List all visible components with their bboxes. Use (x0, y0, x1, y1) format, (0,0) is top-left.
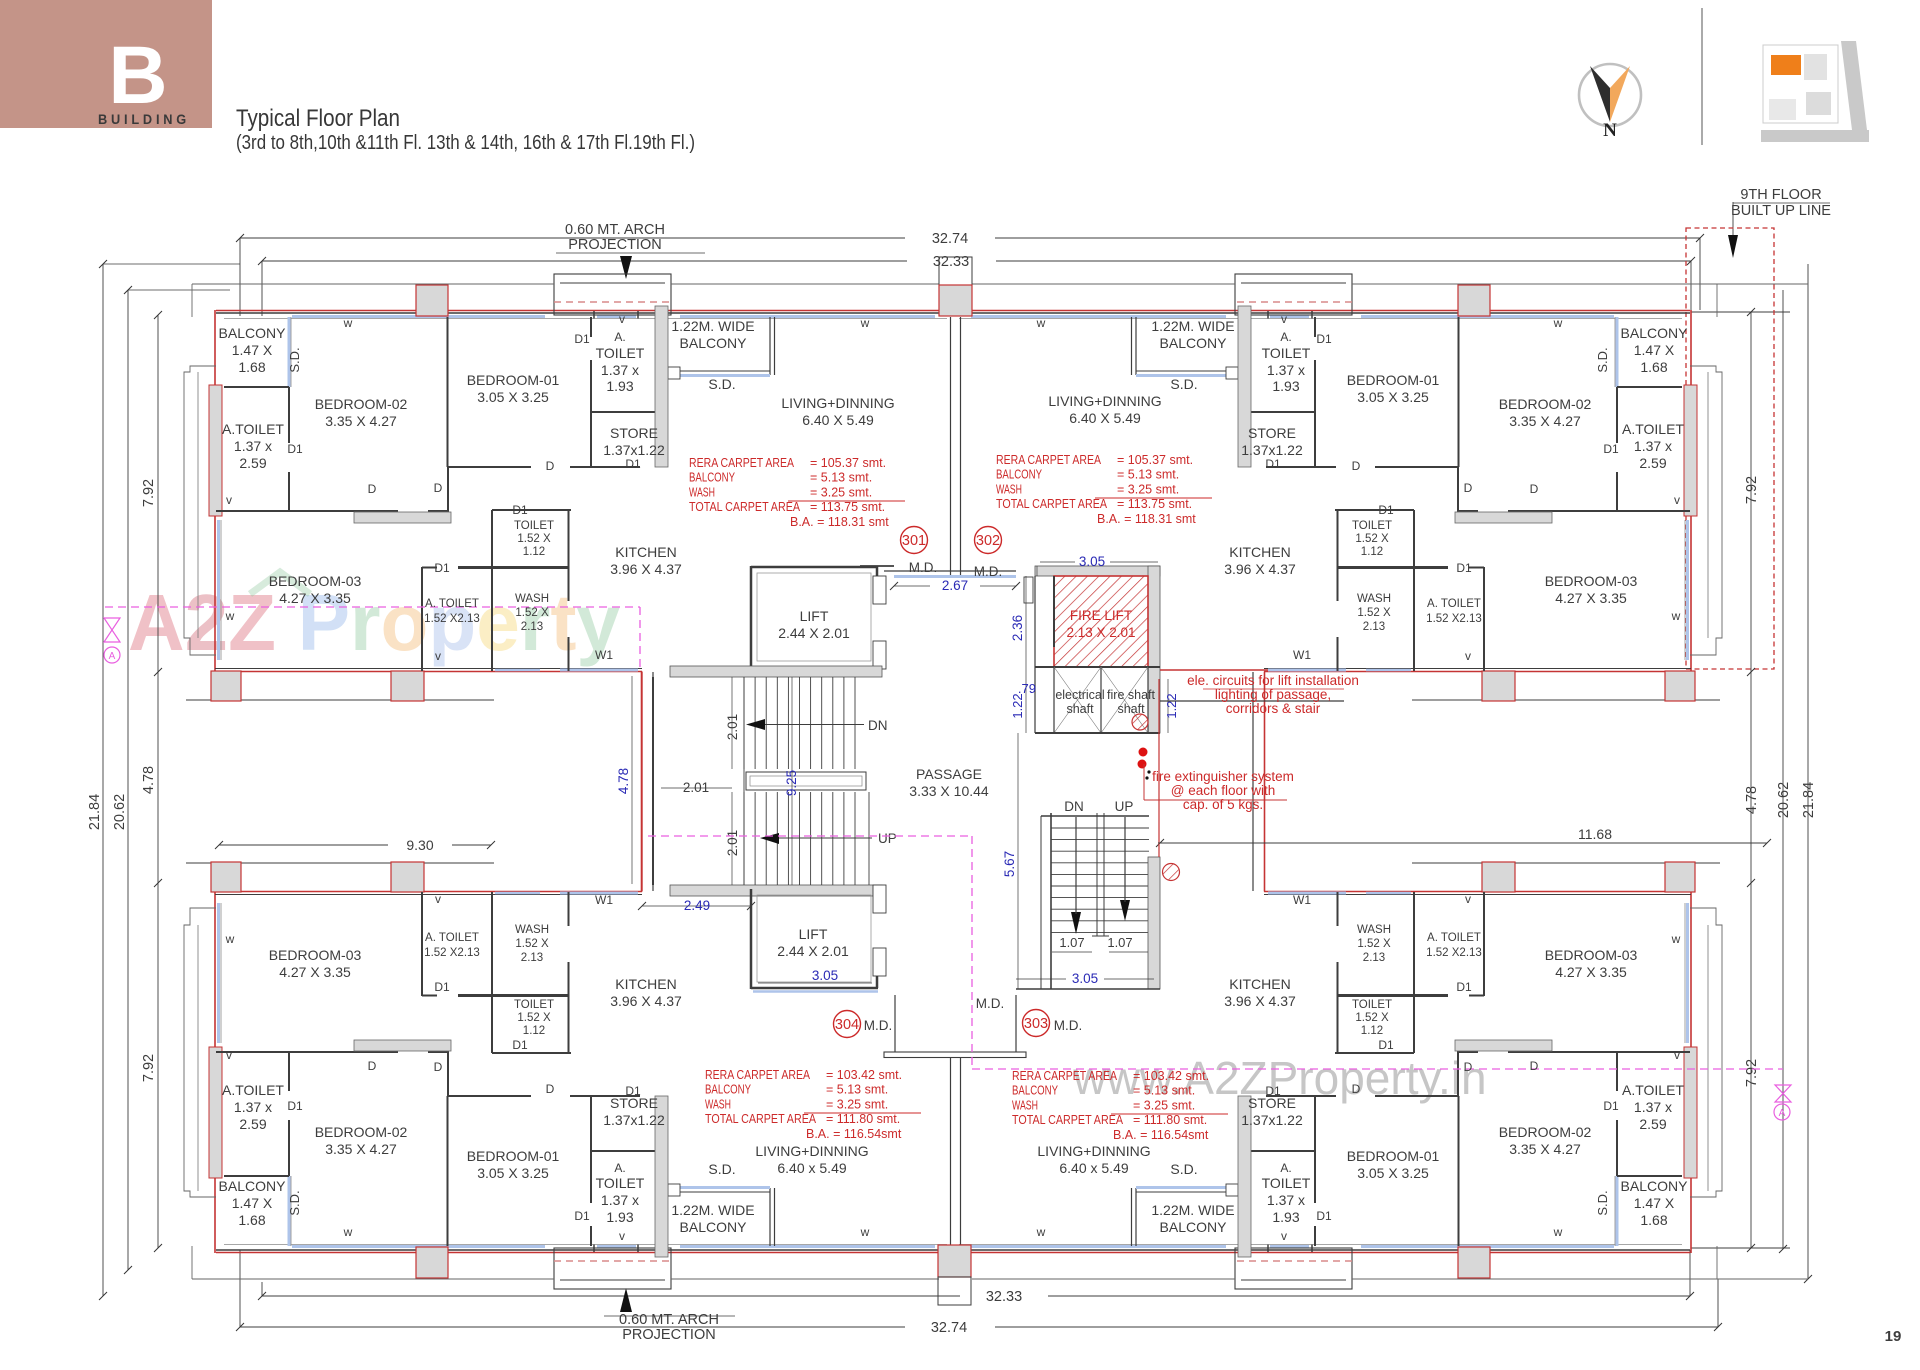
svg-text:A.TOILET: A.TOILET (1622, 421, 1684, 437)
svg-text:3.35 X 4.27: 3.35 X 4.27 (325, 1141, 397, 1157)
svg-text:= 5.13 smt.: = 5.13 smt. (826, 1083, 888, 1097)
svg-text:= 5.13 smt.: = 5.13 smt. (1117, 468, 1179, 482)
svg-text:1.68: 1.68 (1640, 359, 1667, 375)
svg-text:TOILET: TOILET (1352, 520, 1392, 532)
svg-text:BUILDING: BUILDING (98, 112, 190, 127)
svg-text:3.05: 3.05 (1072, 971, 1098, 986)
svg-text:BEDROOM-02: BEDROOM-02 (315, 396, 408, 412)
svg-text:D: D (1464, 481, 1473, 495)
svg-text:3.96 X 4.37: 3.96 X 4.37 (610, 561, 682, 577)
stair dimensions (731, 677, 733, 769)
central foyer partition (950, 317, 952, 576)
svg-text:A.: A. (1280, 330, 1291, 344)
svg-text:A. TOILET: A. TOILET (425, 932, 479, 944)
bottom centre projection (938, 1277, 971, 1305)
svg-text:303: 303 (1024, 1016, 1048, 1032)
svg-text:D1: D1 (287, 1099, 303, 1113)
header divider (1701, 8, 1703, 145)
svg-text:@ each floor with: @ each floor with (1171, 783, 1276, 798)
svg-text:PROJECTION: PROJECTION (568, 237, 661, 253)
svg-text:1.52 X: 1.52 X (515, 607, 549, 619)
svg-text:BEDROOM-01: BEDROOM-01 (467, 1148, 560, 1164)
svg-text:= 111.80 smt.: = 111.80 smt. (826, 1112, 900, 1126)
fire lift (1035, 566, 1160, 576)
svg-text:KITCHEN: KITCHEN (1229, 976, 1290, 992)
svg-text:9.25: 9.25 (784, 770, 799, 796)
svg-text:fire extinguisher system: fire extinguisher system (1152, 769, 1294, 784)
svg-text:1.52 X2.13: 1.52 X2.13 (424, 947, 480, 959)
svg-text:v: v (226, 493, 232, 507)
svg-text:D: D (1530, 1059, 1539, 1073)
svg-text:D1: D1 (1456, 561, 1472, 575)
stair landing (746, 772, 866, 790)
svg-text:UP: UP (1115, 799, 1134, 814)
svg-text:1.12: 1.12 (523, 1025, 545, 1037)
svg-text:= 5.13 smt.: = 5.13 smt. (810, 471, 872, 485)
svg-text:v: v (1674, 1048, 1680, 1062)
svg-text:1.52 X2.13: 1.52 X2.13 (1426, 947, 1482, 959)
svg-text:= 3.25 smt.: = 3.25 smt. (810, 485, 872, 499)
svg-text:w: w (343, 316, 353, 330)
svg-text:W1: W1 (595, 893, 613, 907)
svg-text:20.62: 20.62 (1776, 782, 1792, 818)
svg-text:3.35 X 4.27: 3.35 X 4.27 (1509, 1141, 1581, 1157)
svg-text:1.47 X: 1.47 X (1634, 1195, 1675, 1211)
svg-text:2.44 X 2.01: 2.44 X 2.01 (777, 943, 849, 959)
svg-text:w: w (1036, 316, 1046, 330)
svg-text:WASH: WASH (705, 1097, 731, 1111)
right core lobby walls (1160, 669, 1268, 671)
svg-text:N: N (1603, 120, 1617, 141)
dimension ticks (236, 234, 244, 242)
svg-text:corridors & stair: corridors & stair (1226, 701, 1321, 716)
svg-text:1.93: 1.93 (1272, 1209, 1299, 1225)
svg-text:TOTAL CARPET AREA: TOTAL CARPET AREA (689, 500, 801, 514)
svg-text:1.68: 1.68 (238, 359, 265, 375)
svg-text:3.35 X 4.27: 3.35 X 4.27 (1509, 413, 1581, 429)
2.67 dim (894, 585, 930, 587)
magenta demarcation lines (105, 606, 640, 608)
svg-text:= 103.42 smt.: = 103.42 smt. (1133, 1069, 1209, 1083)
svg-text:1.37 x: 1.37 x (601, 362, 639, 378)
svg-text:2.59: 2.59 (1639, 1116, 1666, 1132)
svg-text:DN: DN (868, 718, 888, 733)
svg-text:S.D.: S.D. (708, 376, 735, 392)
svg-text:B: B (108, 30, 167, 121)
svg-text:5.67: 5.67 (1002, 851, 1017, 877)
svg-text:w: w (1671, 609, 1681, 623)
svg-text:BEDROOM-02: BEDROOM-02 (1499, 396, 1592, 412)
outer dimension lines top (240, 237, 905, 239)
svg-text:S.D.: S.D. (1595, 1190, 1610, 1215)
svg-text:D1: D1 (574, 1209, 590, 1223)
svg-text:= 3.25 smt.: = 3.25 smt. (1117, 482, 1179, 496)
svg-text:M.D.: M.D. (1054, 1018, 1083, 1033)
top centre projection (939, 257, 972, 285)
svg-text:D1: D1 (1316, 1209, 1332, 1223)
svg-text:Typical Floor Plan: Typical Floor Plan (236, 105, 400, 132)
svg-text:B.A. = 118.31 smt: B.A. = 118.31 smt (1097, 512, 1196, 526)
svg-text:W1: W1 (1293, 893, 1311, 907)
svg-text:1.22M. WIDE: 1.22M. WIDE (1151, 318, 1234, 334)
svg-text:4.27 X 3.35: 4.27 X 3.35 (1555, 964, 1627, 980)
svg-text:4.78: 4.78 (616, 768, 631, 794)
svg-text:302: 302 (976, 533, 1000, 549)
svg-text:D: D (368, 1059, 377, 1073)
svg-text:BALCONY: BALCONY (705, 1083, 752, 1097)
svg-text:BALCONY: BALCONY (1160, 335, 1228, 351)
north compass (1579, 64, 1641, 126)
svg-text:7.92: 7.92 (1744, 1059, 1760, 1087)
svg-text:RERA CARPET AREA: RERA CARPET AREA (996, 453, 1102, 467)
wall band (670, 885, 882, 896)
svg-text:shaft: shaft (1066, 702, 1094, 716)
svg-text:S.D.: S.D. (1595, 347, 1610, 372)
svg-text:WASH: WASH (1357, 593, 1391, 605)
svg-text:S.D.: S.D. (287, 347, 302, 372)
svg-text:TOILET: TOILET (514, 520, 554, 532)
svg-text:4.78: 4.78 (1744, 786, 1760, 814)
svg-text:BALCONY: BALCONY (1621, 1178, 1689, 1194)
svg-text:3.33 X 10.44: 3.33 X 10.44 (909, 783, 989, 799)
svg-text:D1: D1 (1603, 1099, 1619, 1113)
svg-text:A2Z Property: A2Z Property (128, 578, 620, 667)
shafts (1054, 667, 1148, 733)
svg-text:electrical: electrical (1055, 688, 1104, 702)
svg-text:= 3.25 smt.: = 3.25 smt. (1133, 1098, 1195, 1112)
svg-text:RERA CARPET AREA: RERA CARPET AREA (689, 456, 795, 470)
left dimension lines (102, 264, 104, 1296)
svg-text:BEDROOM-02: BEDROOM-02 (315, 1124, 408, 1140)
svg-text:4.27 X 3.35: 4.27 X 3.35 (279, 590, 351, 606)
svg-text:w: w (1671, 932, 1681, 946)
svg-text:TOILET: TOILET (1352, 999, 1392, 1011)
svg-text:D1: D1 (1456, 980, 1472, 994)
svg-text:cap. of 5 kgs.: cap. of 5 kgs. (1183, 797, 1263, 812)
svg-text:D: D (1464, 1060, 1473, 1074)
svg-text:2.13: 2.13 (1363, 952, 1385, 964)
svg-text:= 3.25 smt.: = 3.25 smt. (826, 1097, 888, 1111)
wall band (670, 666, 882, 677)
svg-text:2.67: 2.67 (942, 578, 968, 593)
svg-text:ele. circuits for lift install: ele. circuits for lift installation (1187, 673, 1359, 688)
svg-text:4.27 X 3.35: 4.27 X 3.35 (279, 964, 351, 980)
svg-text:D1: D1 (1265, 1084, 1281, 1098)
svg-text:1.52 X: 1.52 X (1355, 533, 1389, 545)
svg-text:BALCONY: BALCONY (219, 325, 287, 341)
svg-text:BALCONY: BALCONY (689, 471, 736, 485)
svg-text:D1: D1 (625, 1084, 641, 1098)
svg-text:w: w (225, 932, 235, 946)
projection outline (192, 283, 554, 285)
svg-text:S.D.: S.D. (287, 1190, 302, 1215)
svg-text:M.D.: M.D. (974, 564, 1003, 579)
svg-text:3.05 X 3.25: 3.05 X 3.25 (477, 1165, 549, 1181)
svg-text:3.96 X 4.37: 3.96 X 4.37 (1224, 993, 1296, 1009)
lift shaft bottom (750, 889, 753, 989)
svg-text:STORE: STORE (1248, 425, 1296, 441)
flat number 304 (834, 1011, 861, 1038)
svg-text:1.37 x: 1.37 x (1634, 1099, 1672, 1115)
svg-text:20.62: 20.62 (112, 794, 128, 830)
svg-text:BEDROOM-02: BEDROOM-02 (1499, 1124, 1592, 1140)
svg-text:D1: D1 (1378, 503, 1394, 517)
svg-text:1.68: 1.68 (238, 1212, 265, 1228)
svg-text:TOILET: TOILET (596, 345, 645, 361)
svg-text:21.84: 21.84 (87, 794, 103, 830)
svg-text:7.92: 7.92 (141, 1054, 157, 1082)
svg-text:v: v (226, 1048, 232, 1062)
svg-text:UP: UP (878, 831, 897, 846)
svg-text:D1: D1 (574, 332, 590, 346)
svg-text:2.59: 2.59 (239, 455, 266, 471)
svg-text:KITCHEN: KITCHEN (615, 544, 676, 560)
passage entry walls (884, 570, 1016, 572)
svg-text:M.D.: M.D. (909, 560, 938, 575)
svg-text:RERA CARPET AREA: RERA CARPET AREA (1012, 1069, 1118, 1083)
svg-text:1.93: 1.93 (1272, 378, 1299, 394)
svg-text:BALCONY: BALCONY (680, 1219, 748, 1235)
svg-text:BEDROOM-01: BEDROOM-01 (467, 372, 560, 388)
svg-text:D1: D1 (287, 442, 303, 456)
svg-text:BEDROOM-03: BEDROOM-03 (269, 947, 362, 963)
svg-text:D: D (1352, 459, 1361, 473)
outer dimension lines bottom (262, 1295, 960, 1297)
svg-text:= 105.37 smt.: = 105.37 smt. (810, 456, 886, 470)
right stair dims (1052, 951, 1092, 953)
flat number 302 (975, 527, 1002, 554)
svg-text:3.05: 3.05 (812, 968, 838, 983)
svg-text:= 5.13 smt.: = 5.13 smt. (1133, 1084, 1195, 1098)
lift shaft top (750, 566, 753, 667)
svg-text:TOTAL CARPET AREA: TOTAL CARPET AREA (1012, 1113, 1124, 1127)
svg-text:1.37x1.22: 1.37x1.22 (1241, 442, 1303, 458)
svg-text:BALCONY: BALCONY (680, 335, 748, 351)
svg-text:1.12: 1.12 (1361, 546, 1383, 558)
svg-text:S.D.: S.D. (708, 1161, 735, 1177)
svg-text:1.37 x: 1.37 x (234, 438, 272, 454)
svg-text:LIVING+DINNING: LIVING+DINNING (755, 1143, 868, 1159)
right dimension lines (1750, 312, 1752, 1248)
svg-text:D1: D1 (1603, 442, 1619, 456)
staircase right (1040, 816, 1042, 989)
svg-text:1.52 X: 1.52 X (1357, 938, 1391, 950)
svg-text:B.A. = 118.31 smt: B.A. = 118.31 smt (790, 515, 889, 529)
svg-text:D: D (1530, 482, 1539, 496)
svg-text:= 113.75 smt.: = 113.75 smt. (1117, 497, 1192, 511)
svg-text:w: w (1553, 316, 1563, 330)
svg-text:W1: W1 (1293, 648, 1311, 662)
svg-text:A. TOILET: A. TOILET (1427, 598, 1481, 610)
svg-text:BALCONY: BALCONY (219, 1178, 287, 1194)
svg-text:v: v (1674, 493, 1680, 507)
svg-text:1.47 X: 1.47 X (1634, 342, 1675, 358)
svg-text:B.A. = 116.54smt: B.A. = 116.54smt (806, 1127, 902, 1141)
svg-text:2.36: 2.36 (1010, 615, 1025, 641)
svg-text:1.22M. WIDE: 1.22M. WIDE (1151, 1202, 1234, 1218)
survey marker right (1775, 1085, 1791, 1102)
svg-text:BALCONY: BALCONY (1012, 1084, 1059, 1098)
svg-text:S.D.: S.D. (1170, 1161, 1197, 1177)
svg-text:A.: A. (1280, 1161, 1291, 1175)
svg-text:7.92: 7.92 (1744, 476, 1760, 504)
bottom centre column (938, 1245, 971, 1277)
svg-text:1.93: 1.93 (606, 378, 633, 394)
svg-text:D1: D1 (434, 980, 450, 994)
svg-text:BALCONY: BALCONY (1621, 325, 1689, 341)
svg-text:D: D (434, 481, 443, 495)
svg-text:v: v (1465, 649, 1471, 663)
svg-text:BEDROOM-01: BEDROOM-01 (1347, 372, 1440, 388)
svg-text:A: A (109, 651, 116, 662)
svg-text:DN: DN (1064, 799, 1084, 814)
svg-text:D1: D1 (512, 503, 528, 517)
svg-text:w: w (1036, 1225, 1046, 1239)
svg-text:1.52 X: 1.52 X (517, 533, 551, 545)
svg-text:1.37 x: 1.37 x (601, 1192, 639, 1208)
svg-text:4.78: 4.78 (141, 766, 157, 794)
svg-text:1.37x1.22: 1.37x1.22 (603, 442, 665, 458)
svg-text:3.96 X 4.37: 3.96 X 4.37 (610, 993, 682, 1009)
svg-text:A.TOILET: A.TOILET (222, 1082, 284, 1098)
site key plan icon (1763, 45, 1838, 123)
svg-text:A.TOILET: A.TOILET (1622, 1082, 1684, 1098)
svg-text:D: D (434, 1060, 443, 1074)
svg-text:1.37x1.22: 1.37x1.22 (1241, 1112, 1303, 1128)
svg-text:v: v (435, 892, 441, 906)
svg-text:2.01: 2.01 (725, 714, 740, 740)
svg-text:v: v (1281, 312, 1287, 326)
svg-text:M.D.: M.D. (976, 996, 1005, 1011)
svg-text:1.12: 1.12 (1361, 1025, 1383, 1037)
svg-text:2.13: 2.13 (521, 621, 543, 633)
survey marker left (104, 618, 120, 642)
svg-text:D: D (546, 1082, 555, 1096)
svg-text:shaft: shaft (1117, 702, 1145, 716)
svg-text:LIFT: LIFT (800, 608, 829, 624)
svg-text:BEDROOM-01: BEDROOM-01 (1347, 1148, 1440, 1164)
svg-text:v: v (435, 649, 441, 663)
svg-text:3.96 X 4.37: 3.96 X 4.37 (1224, 561, 1296, 577)
svg-text:D1: D1 (434, 561, 450, 575)
svg-text:KITCHEN: KITCHEN (1229, 544, 1290, 560)
svg-text:v: v (1281, 1229, 1287, 1243)
svg-text:1.12: 1.12 (523, 546, 545, 558)
svg-text:1.07: 1.07 (1059, 935, 1084, 950)
svg-text:w: w (1553, 1225, 1563, 1239)
svg-text:6.40 x 5.49: 6.40 x 5.49 (1059, 1160, 1128, 1176)
svg-text:1.52 X2.13: 1.52 X2.13 (424, 613, 480, 625)
svg-text:1.52 X: 1.52 X (1357, 607, 1391, 619)
svg-text:32.74: 32.74 (931, 1320, 967, 1336)
svg-text:B.A. = 116.54smt: B.A. = 116.54smt (1113, 1128, 1209, 1142)
svg-text:PASSAGE: PASSAGE (916, 766, 982, 782)
svg-text:v: v (1465, 892, 1471, 906)
svg-text:2.01: 2.01 (683, 780, 709, 795)
svg-text:TOILET: TOILET (1262, 345, 1311, 361)
svg-text:32.33: 32.33 (986, 1289, 1022, 1305)
flat number 303 (1023, 1010, 1050, 1037)
svg-text:9TH FLOOR: 9TH FLOOR (1740, 187, 1821, 203)
svg-text:w: w (860, 316, 870, 330)
svg-text:WASH: WASH (1357, 924, 1391, 936)
svg-text:7.92: 7.92 (141, 479, 157, 507)
svg-text:1.52 X: 1.52 X (517, 1012, 551, 1024)
svg-text:BALCONY: BALCONY (996, 468, 1043, 482)
svg-text:2.59: 2.59 (239, 1116, 266, 1132)
svg-text:w: w (225, 609, 235, 623)
svg-text:BALCONY: BALCONY (1160, 1219, 1228, 1235)
svg-text:1.52 X: 1.52 X (515, 938, 549, 950)
fire extinguisher marks (1139, 748, 1148, 757)
svg-text:A.TOILET: A.TOILET (222, 421, 284, 437)
svg-text:= 103.42 smt.: = 103.42 smt. (826, 1068, 902, 1082)
svg-text:301: 301 (902, 533, 926, 549)
svg-text:v: v (619, 312, 625, 326)
svg-text:TOTAL CARPET AREA: TOTAL CARPET AREA (705, 1112, 817, 1126)
svg-text:1.22: 1.22 (1164, 693, 1179, 718)
svg-text:A. TOILET: A. TOILET (425, 598, 479, 610)
svg-text:D1: D1 (625, 457, 641, 471)
svg-text:= 105.37 smt.: = 105.37 smt. (1117, 453, 1193, 467)
top centre column (939, 285, 972, 316)
svg-text:6.40 X 5.49: 6.40 X 5.49 (802, 412, 874, 428)
svg-text:KITCHEN: KITCHEN (615, 976, 676, 992)
svg-text:2.13: 2.13 (521, 952, 543, 964)
svg-text:1.37 x: 1.37 x (234, 1099, 272, 1115)
svg-text:1.47 X: 1.47 X (232, 342, 273, 358)
svg-text:= 111.80 smt.: = 111.80 smt. (1133, 1113, 1207, 1127)
svg-text:BEDROOM-03: BEDROOM-03 (1545, 573, 1638, 589)
svg-text:D: D (368, 482, 377, 496)
svg-text:WASH: WASH (515, 593, 549, 605)
svg-text:2.49: 2.49 (684, 898, 710, 913)
svg-text:v: v (619, 1229, 625, 1243)
svg-text:2.59: 2.59 (1639, 455, 1666, 471)
svg-text:M.D.: M.D. (864, 1018, 893, 1033)
svg-text:RERA CARPET AREA: RERA CARPET AREA (705, 1068, 811, 1082)
fire-lift dims (1036, 566, 1038, 576)
svg-text:1.52 X: 1.52 X (1355, 1012, 1389, 1024)
svg-text:1.22M. WIDE: 1.22M. WIDE (671, 318, 754, 334)
svg-text:304: 304 (835, 1017, 859, 1033)
svg-text:3.05: 3.05 (1079, 554, 1105, 569)
svg-text:2.01: 2.01 (725, 830, 740, 856)
svg-text:32.74: 32.74 (932, 231, 968, 247)
svg-text:D1: D1 (1316, 332, 1332, 346)
svg-text:fire shaft: fire shaft (1107, 688, 1155, 702)
svg-text:LIVING+DINNING: LIVING+DINNING (781, 395, 894, 411)
svg-text:LIVING+DINNING: LIVING+DINNING (1037, 1143, 1150, 1159)
svg-text:2.13: 2.13 (1363, 621, 1385, 633)
svg-text:1.37x1.22: 1.37x1.22 (603, 1112, 665, 1128)
svg-text:2.13 X 2.01: 2.13 X 2.01 (1066, 625, 1135, 640)
svg-text:w: w (343, 1225, 353, 1239)
svg-text:D1: D1 (1378, 1038, 1394, 1052)
svg-text:D1: D1 (1265, 457, 1281, 471)
svg-text:1.47 X: 1.47 X (232, 1195, 273, 1211)
svg-text:3.05 X 3.25: 3.05 X 3.25 (1357, 389, 1429, 405)
svg-text:PROJECTION: PROJECTION (622, 1327, 715, 1343)
svg-text:w: w (860, 1225, 870, 1239)
svg-text:1.37 x: 1.37 x (1634, 438, 1672, 454)
svg-text:1.07: 1.07 (1107, 935, 1132, 950)
svg-text:9.30: 9.30 (406, 837, 433, 853)
svg-text:= 113.75 smt.: = 113.75 smt. (810, 500, 885, 514)
svg-text:BEDROOM-03: BEDROOM-03 (269, 573, 362, 589)
svg-text:A.: A. (614, 1161, 625, 1175)
svg-text:1.52 X2.13: 1.52 X2.13 (1426, 613, 1482, 625)
